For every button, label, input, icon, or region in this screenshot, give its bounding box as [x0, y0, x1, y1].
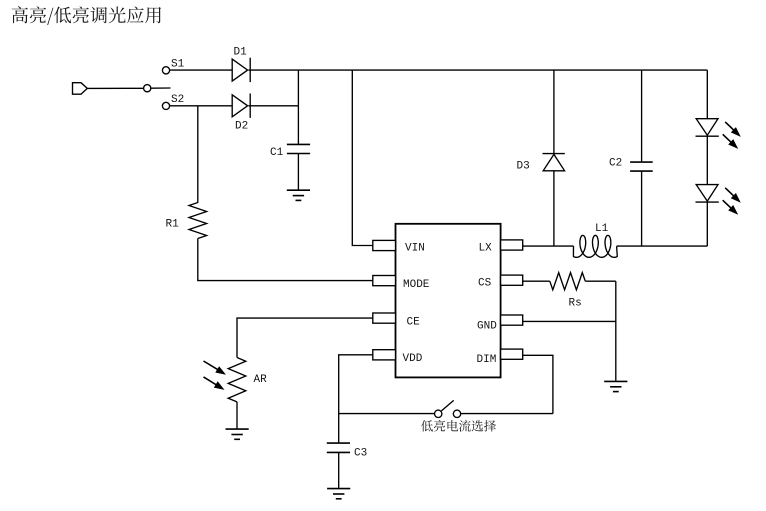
switch lever — [151, 87, 171, 89]
wire L1 to LED column — [617, 245, 708, 247]
wire C2 branch (top rail down to C2) — [641, 70, 643, 162]
wire connector to switch pole — [87, 87, 143, 89]
label 低亮电流选择 — [421, 420, 496, 432]
switch pole circle — [144, 85, 151, 92]
wire Rs to ground column — [585, 280, 616, 282]
wire AR to ground — [236, 402, 238, 429]
ground (AR) — [226, 429, 249, 439]
diode D1 — [232, 58, 250, 82]
wire LED column top — [706, 70, 708, 119]
svg-text:DIM: DIM — [477, 354, 497, 366]
svg-text:CS: CS — [478, 278, 492, 290]
pin DIM — [501, 349, 523, 359]
wire ground column (Rs corner down to ground) — [615, 281, 617, 381]
photoresistor AR — [228, 358, 246, 402]
diode D3 — [543, 154, 565, 171]
ground (C3) — [327, 489, 350, 499]
svg-text:D2: D2 — [235, 121, 248, 133]
wire LED D4 to LED D5 — [706, 136, 708, 184]
LED D5 emission arrows — [723, 188, 741, 215]
wire C3 to ground — [338, 452, 340, 488]
pin GND — [501, 315, 523, 325]
wire C2 to LX rail — [641, 171, 643, 246]
svg-text:C2: C2 — [609, 158, 622, 170]
ground (GND rail) — [604, 381, 627, 391]
wire top rail (D1 to LED column) — [249, 69, 708, 71]
diode D2 — [232, 94, 250, 118]
wire R1 to pin MODE — [198, 239, 373, 281]
wire pin LX to L1 — [523, 245, 574, 247]
svg-text:L1: L1 — [595, 223, 609, 235]
wire S1 to D1 — [170, 69, 233, 71]
input connector (pentagon plug) — [73, 83, 88, 95]
svg-text:Rs: Rs — [569, 298, 582, 310]
svg-text:C1: C1 — [270, 147, 284, 159]
resistor Rs — [550, 273, 586, 290]
wire pin GND to ground column — [523, 320, 616, 322]
svg-text:R1: R1 — [166, 219, 180, 231]
pin LX — [501, 240, 523, 250]
wire D2 to node C1 — [249, 105, 299, 107]
LED D4 (upper) — [696, 119, 719, 137]
wire C1 to ground — [297, 154, 299, 191]
wire D3 to LX rail — [553, 171, 555, 246]
svg-text:CE: CE — [407, 317, 421, 329]
svg-text:D1: D1 — [234, 47, 248, 59]
resistor R1 — [189, 203, 207, 239]
pin VIN — [373, 240, 396, 250]
inductor L1 — [573, 235, 617, 257]
wire dim switch to DIM column — [461, 413, 553, 415]
svg-text:S1: S1 — [171, 59, 185, 71]
svg-text:C3: C3 — [354, 448, 367, 460]
pin CE — [373, 313, 396, 323]
wire pin DIM branch down to switch — [523, 355, 553, 413]
svg-text:LX: LX — [479, 243, 493, 255]
IC U1 (LED driver) — [396, 224, 501, 378]
pin VDD — [373, 350, 396, 360]
ground (C1) — [287, 190, 310, 200]
svg-text:D3: D3 — [517, 161, 530, 173]
capacitor C1 — [287, 144, 310, 153]
switch contact S2 — [162, 102, 169, 109]
LED D5 (lower) — [696, 185, 719, 203]
wire VDD node to dim switch — [339, 413, 435, 415]
svg-text:S2: S2 — [171, 94, 184, 106]
pin CS — [501, 275, 523, 285]
capacitor C2 — [630, 162, 653, 171]
wire D3 branch (top rail down to D3) — [553, 70, 555, 154]
wire S2 to D2 — [170, 105, 233, 107]
svg-text:VDD: VDD — [403, 353, 423, 365]
wire pin CS to Rs — [523, 280, 550, 282]
capacitor C3 — [327, 443, 350, 452]
svg-text:MODE: MODE — [403, 279, 430, 291]
svg-text:GND: GND — [477, 321, 497, 333]
switch 低亮电流选择 (dim current select) — [435, 400, 461, 417]
AR light arrows — [204, 361, 227, 390]
svg-text:VIN: VIN — [405, 243, 425, 255]
wire LED D5 to LX rail — [706, 202, 708, 246]
wire pin CE to AR — [237, 318, 373, 357]
LED D4 emission arrows — [723, 122, 741, 149]
switch contact S1 — [162, 67, 169, 74]
svg-text:AR: AR — [254, 374, 268, 386]
wire VIN branch (top rail down to pin VIN) — [352, 70, 373, 245]
wire node top-rail down to C1 — [297, 70, 299, 144]
wire pin VDD branch down to C3 — [339, 355, 373, 443]
wire S2 node down to R1 — [197, 106, 199, 203]
title 高亮/低亮调光应用 — [12, 6, 161, 25]
pin MODE — [373, 276, 396, 286]
